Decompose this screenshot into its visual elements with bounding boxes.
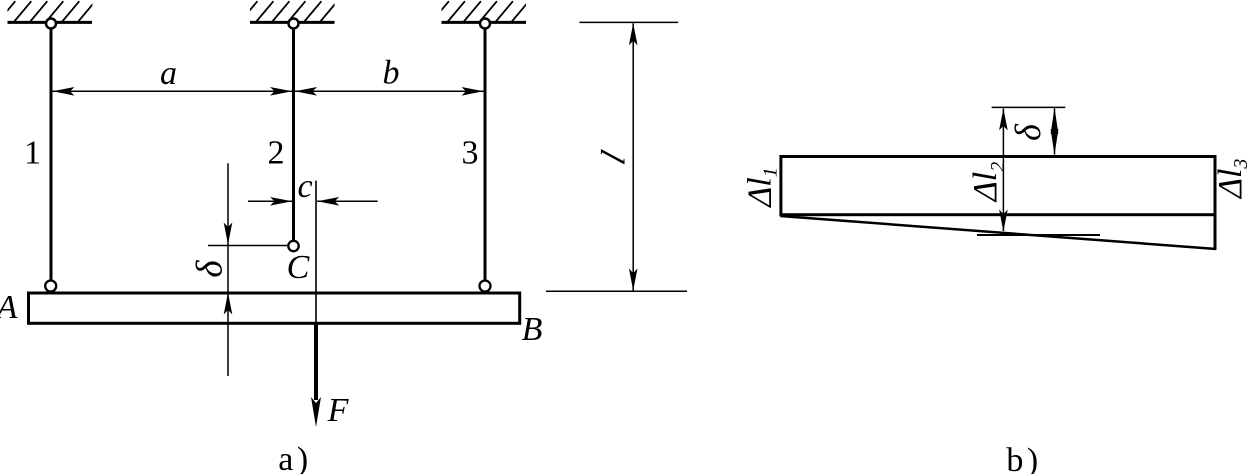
svg-text:δ: δ — [1008, 123, 1048, 141]
svg-text:A: A — [0, 289, 18, 326]
dimension b line — [295, 90, 484, 92]
svg-text:c: c — [297, 168, 312, 205]
pin circle C (bottom of rod 2) — [288, 241, 298, 251]
pin circle top 1 — [46, 19, 56, 29]
support base line 1 — [8, 21, 93, 24]
delta dimension (fig b) double arrow — [1054, 108, 1056, 154]
label l (rotated) — [594, 146, 632, 169]
support base line 2 — [250, 21, 335, 24]
l dimension vertical line — [632, 23, 634, 290]
pin circle beam right — [480, 281, 491, 292]
rod 2 — [292, 28, 295, 241]
svg-text:δ: δ — [190, 260, 231, 278]
top tick (fig b) — [992, 106, 1066, 108]
support base line 3 — [442, 21, 527, 24]
force F arrow — [314, 323, 318, 400]
C level line — [208, 245, 289, 247]
dimension c right arrow — [317, 200, 378, 202]
svg-text:a): a) — [278, 441, 311, 474]
pin circle top 2 — [289, 19, 299, 29]
svg-text:1: 1 — [24, 135, 41, 172]
svg-text:B: B — [522, 311, 543, 348]
force action line — [315, 181, 317, 323]
beam AB — [29, 293, 520, 323]
delta dimension vertical line — [227, 163, 229, 376]
l dimension top tick — [580, 21, 679, 23]
l dimension bottom tick — [546, 290, 687, 292]
horizontal tick on slant — [977, 234, 1100, 236]
svg-text:3: 3 — [462, 135, 479, 172]
rod 3 — [484, 28, 487, 281]
delta l2 dimension — [1002, 108, 1004, 231]
svg-text:b: b — [383, 55, 400, 92]
svg-text:a: a — [160, 55, 177, 92]
dimension c left arrow — [248, 200, 292, 202]
rod 1 — [50, 28, 53, 281]
slanted displaced beam line — [780, 216, 1216, 249]
svg-text:F: F — [327, 392, 350, 429]
beam rectangle (fig b) — [781, 157, 1215, 215]
svg-text:b): b) — [1006, 442, 1041, 474]
svg-text:2: 2 — [268, 135, 285, 172]
pin circle beam left — [45, 281, 56, 292]
svg-text:C: C — [287, 249, 310, 286]
dimension a line — [53, 90, 293, 92]
right edge extension — [1214, 213, 1217, 250]
pin circle top 3 — [480, 19, 490, 29]
